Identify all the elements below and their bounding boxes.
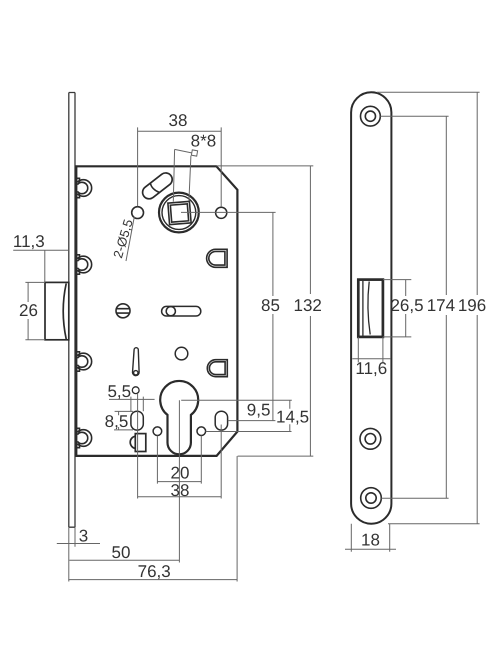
dim 38 top lines	[138, 127, 222, 206]
svg-text:38: 38	[169, 111, 188, 130]
middle screw hole	[360, 428, 381, 449]
dim 50 line	[69, 559, 179, 561]
fixing tab 1	[76, 178, 91, 197]
plate bottom ext	[388, 523, 480, 525]
plate top ext	[377, 91, 480, 93]
screw hole right	[197, 427, 206, 436]
cylinder center line	[181, 399, 292, 401]
dim 11.6 lines	[352, 337, 390, 363]
dim 85 and 9.5 vertical	[272, 212, 274, 420]
svg-text:76,3: 76,3	[138, 562, 171, 581]
dim 196 vertical	[476, 92, 478, 523]
dim 8*8 leader	[173, 149, 191, 201]
spindle hub outer circle	[159, 193, 199, 233]
adjusting screw	[116, 304, 130, 318]
svg-text:174: 174	[427, 296, 455, 315]
leader 2-D5.5	[126, 217, 134, 261]
dim 14.5 lines	[206, 400, 292, 431]
svg-text:20: 20	[171, 463, 190, 482]
bottom screw hole	[361, 488, 382, 509]
lock bottom ext line	[238, 455, 314, 457]
dim 38 bottom lines	[138, 394, 222, 499]
oval slot left	[131, 411, 143, 430]
keeper D-shape lower	[207, 360, 227, 377]
svg-text:9,5: 9,5	[247, 401, 271, 420]
svg-text:26,5: 26,5	[390, 296, 423, 315]
svg-text:26: 26	[19, 301, 38, 320]
latch cutout	[358, 280, 383, 337]
spindle hub inner circle	[162, 196, 196, 230]
dim 174 vertical	[445, 116, 447, 498]
stopper block	[130, 434, 146, 452]
svg-text:5,5: 5,5	[107, 382, 131, 401]
latch bolt	[45, 282, 69, 339]
svg-text:85: 85	[261, 296, 280, 315]
keeper D-shape upper	[207, 249, 228, 267]
svg-text:3: 3	[79, 527, 88, 546]
hole 5.5 lower	[132, 387, 139, 394]
hole D5.5 upper	[132, 207, 144, 219]
dim 18 lines	[345, 524, 396, 552]
fixing tab 2	[76, 255, 91, 274]
lock top ext line	[216, 165, 313, 167]
hub center line	[181, 211, 276, 213]
round hole mid	[175, 347, 188, 360]
svg-text:196: 196	[458, 296, 486, 315]
latch cam lever	[140, 170, 175, 201]
hole D5.5 right of hub	[216, 207, 227, 218]
faceplate front view	[351, 92, 391, 523]
svg-text:8,5: 8,5	[105, 412, 129, 431]
DIMENSIONS	[13, 92, 479, 581]
dim 3 lines	[57, 527, 100, 581]
dim 76.3 lines	[68, 456, 237, 581]
fixing tab 4	[76, 428, 91, 447]
svg-text:11,3: 11,3	[13, 232, 45, 251]
svg-text:14,5: 14,5	[276, 408, 309, 427]
faceplate side view	[69, 93, 75, 528]
slot capsule	[162, 306, 201, 316]
svg-text:11,6: 11,6	[355, 359, 387, 378]
euro cylinder hole	[160, 381, 198, 454]
dim 8.5 lines	[114, 411, 133, 430]
fixing tab 3	[76, 352, 91, 371]
bottom screw center ext	[381, 497, 448, 499]
latch in cutout	[363, 281, 370, 336]
dim 5.5 lines	[109, 397, 155, 412]
svg-text:38: 38	[171, 481, 190, 500]
dim 26.5 lines	[383, 280, 411, 337]
cylinder center vertical ext	[178, 400, 180, 562]
dim 11.3 lines	[13, 250, 69, 282]
svg-text:50: 50	[112, 543, 131, 562]
dim 26 lines	[25, 282, 45, 339]
svg-text:18: 18	[361, 531, 380, 550]
oval slot right	[215, 411, 227, 430]
lock body outline	[76, 166, 237, 456]
dim 20 lines	[157, 436, 201, 484]
pin teardrop	[133, 348, 140, 376]
top screw center ext	[380, 115, 448, 117]
svg-text:8*8: 8*8	[191, 132, 217, 151]
dim 132 vertical	[309, 166, 311, 456]
svg-text:132: 132	[294, 296, 322, 315]
spindle square hole 8x8	[168, 201, 191, 224]
top screw hole	[361, 106, 381, 126]
dim 9.5 bottom line	[228, 420, 276, 422]
screw hole left	[153, 427, 162, 436]
